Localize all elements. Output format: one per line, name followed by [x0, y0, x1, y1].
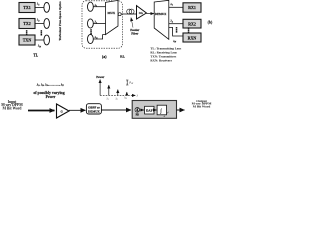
- svg-text:RL: RL: [120, 54, 125, 58]
- legend: [150, 47, 182, 63]
- svg-text:λ1: λ1: [106, 97, 109, 101]
- dots between TX2 and TXN: [26, 30, 28, 35]
- wire output arrow: [177, 109, 185, 111]
- svg-text:PλN: PλN: [128, 82, 133, 86]
- transmitter TXN: [19, 35, 35, 45]
- dots between RX2 and RXN: [188, 27, 190, 33]
- wire OBPF to receiver block: [101, 109, 131, 111]
- wire RL2 to MUX: [93, 23, 105, 25]
- svg-text:RX1: RX1: [188, 5, 196, 10]
- svg-text:Power: Power: [96, 75, 105, 79]
- svg-text:λN: λN: [94, 35, 98, 40]
- svg-text:EAF: EAF: [146, 109, 153, 113]
- svg-text:TXN: TXN: [23, 38, 32, 43]
- power axis (vertical arrow): [99, 80, 101, 96]
- transmitter TX2: [19, 19, 35, 29]
- wire TX1 to lens: [35, 6, 45, 8]
- wire MUX to OA: [121, 13, 136, 15]
- receiver RX1: [183, 3, 201, 12]
- label Output M-ary DPPM M Bit Word: [192, 99, 213, 109]
- impulse lambda2: [117, 90, 119, 96]
- svg-text:Fiber: Fiber: [131, 31, 139, 35]
- svg-text:(a): (a): [102, 54, 107, 59]
- output connector circle: [118, 13, 121, 16]
- svg-text:λ: λ: [136, 93, 139, 97]
- svg-text:Power: Power: [46, 95, 56, 99]
- wire OA to DEMUX: [146, 13, 154, 15]
- svg-text:M Bit Word: M Bit Word: [3, 107, 23, 111]
- svg-text:DEMUX: DEMUX: [88, 109, 100, 113]
- impulse lambdaN: [126, 92, 128, 95]
- receiver RXN: [183, 33, 201, 42]
- wire PD to EAF: [140, 109, 144, 111]
- svg-text:λ2: λ2: [36, 18, 40, 23]
- receiver RX2: [183, 19, 201, 28]
- svg-text:Turbulent Free-Space Optics: Turbulent Free-Space Optics: [58, 1, 62, 41]
- svg-text:λ1: λ1: [170, 2, 173, 7]
- photodetector PD: [135, 108, 140, 113]
- dots between lambda2 and lambdaN wires: [176, 27, 178, 32]
- svg-text:RX2: RX2: [188, 21, 196, 26]
- wire DEMUX to RXN (stepped): [169, 28, 183, 37]
- svg-text:λN: λN: [172, 39, 176, 44]
- wavelength axis (dashed arrow): [100, 94, 135, 96]
- svg-text:TL: TL: [33, 53, 38, 57]
- impulse lambda1: [108, 85, 110, 95]
- svg-text:DEMUX: DEMUX: [155, 12, 167, 16]
- svg-text:λ1: λ1: [36, 2, 40, 7]
- filter OBPF or DEMUX: [86, 104, 101, 114]
- wire G to OBPF: [69, 109, 86, 111]
- dots between TL2 and TLN: [41, 30, 43, 35]
- wire TX2 to lens: [35, 23, 45, 25]
- wire RLN to MUX: [93, 35, 105, 39]
- MUX combiner: [106, 0, 119, 34]
- receiving lens RL2: [88, 19, 94, 28]
- svg-text:TX1: TX1: [23, 5, 31, 10]
- sampler tick: [167, 112, 169, 114]
- svg-text:λ2: λ2: [94, 20, 97, 25]
- wire TXN to lens: [35, 39, 45, 41]
- feeder fiber coil: [127, 9, 134, 14]
- svg-text:λ2: λ2: [115, 97, 118, 101]
- DEMUX splitter: [154, 0, 169, 39]
- svg-text:OA: OA: [139, 12, 143, 15]
- optical amplifier OA: [137, 6, 147, 19]
- svg-text:PD: PD: [136, 114, 140, 117]
- transmitter TX1: [19, 3, 35, 13]
- wire DEMUX to RX1: [169, 6, 183, 8]
- amplifier G: [57, 104, 70, 118]
- svg-text:λN: λN: [37, 44, 41, 49]
- measure P_lambdaN: [126, 80, 128, 85]
- power spectrum inset: [96, 75, 138, 101]
- receiver block (gray): [132, 101, 176, 119]
- label Input M-ary DPPM M Bit Word: [1, 100, 23, 111]
- dashed box (a) receiver front-end: [82, 1, 122, 48]
- integrator: [157, 105, 166, 115]
- transmitting lens TLN: [44, 35, 50, 45]
- wire DEMUX to RX2: [169, 23, 183, 25]
- amplifier-filter EAF: [145, 106, 154, 114]
- svg-text:λN: λN: [123, 97, 127, 101]
- svg-text:RXN: Receivers: RXN: Receivers: [150, 59, 172, 63]
- wire EAF to integrator: [154, 109, 157, 111]
- svg-text:(b): (b): [208, 20, 213, 24]
- wire input arrow: [28, 110, 55, 112]
- svg-text:λ1: λ1: [94, 3, 97, 8]
- receiving lens RL1: [88, 2, 94, 11]
- label Feeder Fiber with arrow: [130, 18, 140, 36]
- transmitting lens TL1: [44, 3, 50, 13]
- receiving lens RLN: [88, 34, 94, 43]
- svg-text:RXN: RXN: [188, 35, 197, 40]
- wire RL1 to MUX: [93, 6, 105, 8]
- transmitting lens TL2: [44, 19, 50, 29]
- svg-text:λ2: λ2: [170, 19, 173, 24]
- svg-text:MUX: MUX: [107, 11, 115, 15]
- svg-text:λ1, λ2, λ3,............., λN: λ1, λ2, λ3,............., λN: [36, 82, 64, 87]
- svg-text:M Bit Word: M Bit Word: [193, 105, 211, 109]
- dots between RL2 and RLN: [90, 29, 92, 34]
- svg-text:TX2: TX2: [23, 21, 31, 26]
